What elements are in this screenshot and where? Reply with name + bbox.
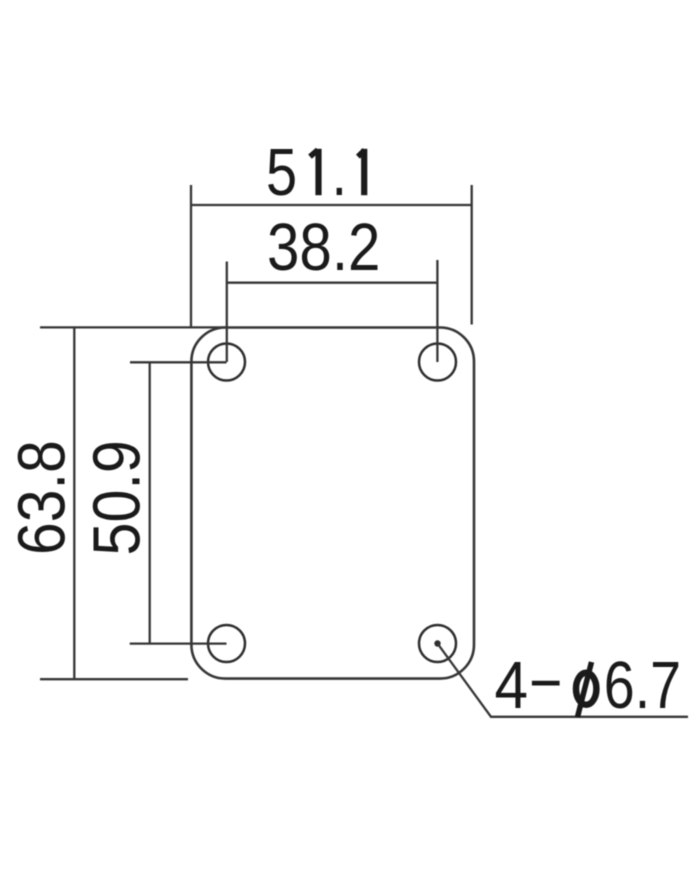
svg-text:−: −: [529, 646, 562, 720]
hole bottom-right: [419, 625, 456, 662]
dimension 38.2 line: [227, 282, 438, 284]
svg-text:.: .: [332, 135, 348, 210]
dimension 50.9 extension line top: [130, 361, 227, 363]
svg-text:4: 4: [495, 647, 529, 723]
svg-text:6.7: 6.7: [604, 648, 681, 723]
svg-text:63.8: 63.8: [5, 440, 79, 555]
leader line: [438, 644, 689, 717]
hole top-left: [208, 344, 245, 381]
svg-text:50.9: 50.9: [80, 440, 154, 555]
dimension 50.9 line: [149, 362, 151, 643]
dimension 38.2 extension line left: [226, 262, 228, 363]
dimension 50.9 extension line bottom: [130, 642, 227, 644]
phi symbol: [576, 662, 596, 717]
neck plate outline: [191, 328, 474, 679]
dimension 63.8 extension line bottom: [40, 678, 188, 680]
hole top-right: [419, 344, 456, 381]
dimension 51.1 line: [191, 204, 472, 206]
svg-text:38.2: 38.2: [267, 210, 380, 285]
dimension 63.8 line: [73, 327, 75, 679]
dimension text 51.1: [266, 135, 367, 210]
dimension 51.1 extension line right: [471, 185, 473, 325]
hole bottom-left: [208, 625, 245, 662]
dimension 51.1 extension line left: [190, 185, 192, 327]
leader dot at bottom-right hole center: [434, 640, 440, 646]
svg-text:5: 5: [266, 135, 297, 210]
dimension 63.8 extension line top: [40, 326, 226, 328]
dimension 38.2 extension line right: [436, 260, 438, 362]
